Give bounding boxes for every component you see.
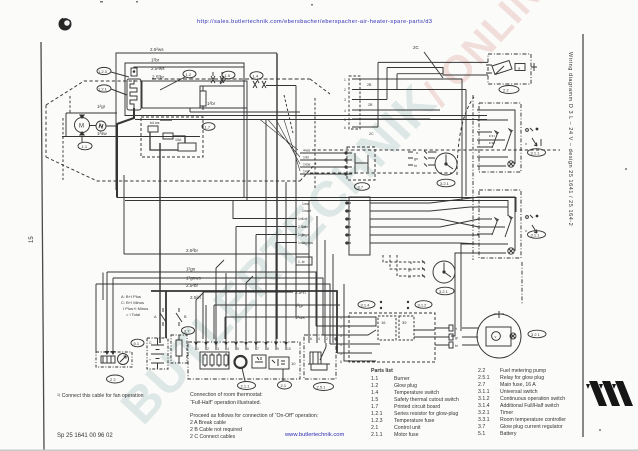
svg-text:1²ws: 1²ws [295,315,305,320]
svg-text:2.7: 2.7 [184,328,190,333]
svg-text:br: br [408,275,412,279]
svg-text:2.5²br: 2.5²br [152,75,164,80]
svg-text:Main fuse, 16 A: Main fuse, 16 A [500,382,536,388]
svg-text:1²gnsw: 1²gnsw [302,241,313,245]
label column mid right [298,217,306,245]
wire pump feed 2 [387,68,488,100]
svg-text:4²ws: 4²ws [303,149,310,153]
wire run 2.5 br lower [96,273,330,353]
switch 3.1.4 box [340,313,435,364]
svg-text:3.7: 3.7 [358,184,364,189]
wire 1 br loop [125,63,244,198]
wire pcb right feed [246,108,248,201]
svg-text:2.1.1: 2.1.1 [371,432,383,438]
svg-text:Timer: Timer [500,410,513,416]
svg-text:8: 8 [267,347,269,351]
svg-text:Sp 25 1641 00 96 02: Sp 25 1641 00 96 02 [57,433,113,439]
svg-text:1.4: 1.4 [253,73,259,78]
note text A C [121,294,148,317]
svg-text:3.1.2: 3.1.2 [418,302,428,307]
svg-text:Proceed as follows for connect: Proceed as follows for connection of “On… [190,413,318,419]
wire run 2.5 rt thick battery [151,291,337,353]
svg-text:2B: 2B [368,103,373,107]
harness bus upper [125,116,487,120]
glow indicator [96,121,106,131]
oval 3.7 [355,183,370,191]
oval 2.1.1 [238,368,256,390]
svg-text:1.2.3: 1.2.3 [98,69,108,74]
glow plug regulator 3.7 box [345,147,375,180]
svg-text:Series resistor for glow-plug: Series resistor for glow-plug [394,411,458,417]
svg-text:1²sw: 1²sw [302,202,310,206]
svg-text:3.3.1: 3.3.1 [478,417,490,423]
oval 1.5 [220,71,235,84]
svg-text:2B: 2B [367,83,372,87]
svg-text:www.butlertechnik.com: www.butlertechnik.com [284,432,344,438]
wire 2.5 br dashed run [152,78,310,80]
svg-text:1²gr: 1²gr [97,104,106,109]
small box 1 br [296,257,312,265]
universal switch 3.1.1 box [477,103,521,172]
oval 3.2.1 lower [436,287,454,295]
heater dashed arc [457,97,474,175]
svg-text:gn: gn [408,268,412,272]
svg-text:I Plus+I Minus: I Plus+I Minus [123,306,148,311]
svg-text:4: 4 [344,109,346,113]
svg-text:2: 2 [326,337,328,341]
svg-text:a: a [518,66,521,71]
room stat clock 2 [433,261,455,283]
svg-text:v: v [495,335,497,339]
svg-text:1.2.1: 1.2.1 [98,86,108,91]
connector 6pin box [345,197,370,255]
extra bus line [190,108,300,112]
scan bottom edge [0,450,638,451]
wire run 2.5 br to 314 [124,175,309,317]
wire 2.5 ws top loop [116,53,277,190]
svg-text:C: B+I Minus: C: B+I Minus [121,300,144,305]
wire main vertical center [276,54,278,340]
relay 2.5.1 box [304,331,336,379]
svg-text:15A: 15A [175,138,182,142]
main fuse 2.7 [171,335,187,363]
publisher logo [586,381,633,406]
svg-text:2 C Connect cables: 2 C Connect cables [190,434,236,440]
svg-text:2.5²ws: 2.5²ws [150,47,164,52]
temperature fuse 1.2.3 [131,68,137,76]
svg-text:Printed circuit board: Printed circuit board [394,404,440,410]
thermostat contact A [160,308,166,326]
svg-text:C: C [149,341,152,345]
oval 1.2.3 [97,67,129,77]
svg-text:2 2: 2 2 [110,377,116,382]
right enclosure dashed outer [521,262,523,305]
battery 5.1 [147,338,168,369]
wire pcb down thick [159,143,161,343]
right long verticals [462,79,466,200]
svg-text:9: 9 [277,347,279,351]
oval 2.5.1 [314,383,334,391]
svg-text:3.1.1: 3.1.1 [531,232,541,237]
timer clock 3.2.1 [435,153,457,175]
svg-text:6: 6 [344,126,346,130]
wire pump feed 3 [397,74,443,90]
oval 5.1 [131,339,144,347]
svg-text:Connection of room thermostat:: Connection of room thermostat: [190,392,263,398]
svg-text:1.1: 1.1 [371,376,378,382]
wire 2C leader [424,52,443,78]
svg-text:Temperature fuse: Temperature fuse [394,418,434,424]
control unit pin arrows [194,342,288,346]
svg-text:“Full-Half” operation illustra: “Full-Half” operation illustrated. [190,400,261,406]
svg-text:1.2: 1.2 [371,383,378,389]
oval 3.1.4 [358,301,375,309]
svg-text:Universal switch: Universal switch [500,389,538,395]
oval 1.1 [78,136,92,150]
svg-text:2.5²br: 2.5²br [186,248,198,253]
oval 3.1.2 [528,231,546,239]
continuous switch 3.1.2 box [477,190,521,258]
svg-text:10: 10 [291,361,296,366]
svg-text:b4 ws: b4 ws [150,121,160,125]
svg-text:1.4: 1.4 [371,390,378,396]
svg-text:3 2 1: 3 2 1 [531,332,541,337]
svg-text:2.2: 2.2 [478,368,485,374]
svg-text:+: + [149,358,151,362]
oval 2.7 [182,327,195,335]
oval 2.1 [278,369,292,389]
wires into relay from top [309,201,333,332]
thermostat contact B [176,308,182,326]
wires into control unit pins [196,120,297,340]
svg-text:Wiring diagramm D 3 L – 24 V –: Wiring diagramm D 3 L – 24 V – design 25… [567,52,573,226]
svg-text:6: 6 [247,347,249,351]
svg-text:2.5²rt: 2.5²rt [295,290,306,295]
svg-text:16: 16 [381,320,386,325]
svg-text:2C: 2C [413,45,420,50]
svg-text:2.1: 2.1 [281,383,287,388]
wire B bottom to relay [451,244,481,336]
control unit sub box a [252,355,266,368]
svg-text:Control unit: Control unit [394,425,421,431]
parts list column 1 [371,368,459,438]
wires into clock 2 dashed drops [383,255,426,279]
wires into 3.7 [260,120,345,175]
room temperature controller 3.3.1 [477,311,521,358]
wire 1 ws mid [225,317,336,339]
svg-text:3: 3 [217,347,219,351]
svg-text:1.2: 1.2 [186,72,192,77]
wire 1 gr mid [214,305,340,339]
wire pump feed 1 [378,62,488,127]
wire run 1 gnws [113,278,323,352]
svg-text:6: 6 [340,360,342,364]
svg-text:4: 4 [227,347,229,351]
svg-text:1) Connect this cable for fan: 1) Connect this cable for fan operation [57,393,144,399]
dots between ovals [380,301,409,309]
heater inner dashed verticals [63,96,70,180]
svg-text:39: 39 [402,320,407,325]
svg-text:2 A Break cable: 2 A Break cable [190,420,226,426]
svg-text:1²gn: 1²gn [302,233,309,237]
wire 1.4 contact run [266,86,296,318]
wire glow indicator [90,125,118,128]
temperature switch 1.4 contacts [253,81,266,88]
svg-text:Motor fuse: Motor fuse [394,432,419,438]
svg-text:Glow plug: Glow plug [394,383,417,389]
svg-text:Additional Full/Half switch: Additional Full/Half switch [500,403,559,409]
svg-text:2.1.1: 2.1.1 [241,383,251,388]
svg-text:M: M [79,124,84,130]
control unit pins 1-10 [196,339,291,351]
connector X2 [344,76,374,136]
harness bus mid [117,198,516,217]
svg-text:5.1: 5.1 [134,341,140,346]
oval 1.7 [202,123,215,131]
oval 3.1.1 [528,149,546,157]
page border right [582,34,584,437]
svg-text:3.2.1: 3.2.1 [440,181,450,186]
svg-text:15: 15 [29,236,35,243]
svg-text:7: 7 [257,347,259,351]
wire 2.5 ws glowplug feed [134,67,244,86]
svg-text:1.5: 1.5 [225,73,231,78]
3pin connector [449,325,478,348]
dashed link 1.4 to below [284,95,315,190]
svg-text:v: v [525,141,527,146]
svg-text:1²gn: 1²gn [186,267,196,272]
svg-text:1²br: 1²br [302,225,309,229]
oval 1.2 [160,70,196,90]
wires into timer [408,151,437,169]
glow plug 1.2 body [127,79,141,110]
wire glow plug down thick [117,108,134,198]
svg-text:1²sw: 1²sw [97,131,107,136]
svg-text:1²br: 1²br [303,156,310,160]
svg-text:A: A [154,315,157,319]
svg-text:br: br [414,164,418,168]
svg-text:10: 10 [287,347,291,351]
svg-text:3.1.2: 3.1.2 [478,396,490,402]
svg-text:5.1: 5.1 [478,431,485,437]
svg-text:2: 2 [344,88,346,92]
scan specks [100,1,627,431]
svg-text:1²br: 1²br [151,58,160,63]
svg-text:3.1.4: 3.1.4 [361,302,371,307]
right enclosure dashed [472,95,474,260]
wire 2.5 rt mid [203,292,293,339]
svg-text:v: v [525,228,527,233]
svg-text:Parts list: Parts list [371,368,393,374]
svg-text:1.7: 1.7 [205,124,211,129]
svg-text:1.5: 1.5 [371,397,378,403]
watermark ONLINE [415,0,570,114]
oval 1.2.1 [97,85,127,95]
control unit 2.1 box [188,342,300,379]
svg-text:5: 5 [344,118,346,122]
svg-text:3.2.1: 3.2.1 [439,289,449,294]
motor M [75,115,90,136]
svg-text:gr: gr [455,336,459,340]
wires X2 pins [360,79,466,127]
svg-text:2.5.1: 2.5.1 [478,375,490,381]
control unit ring [235,356,247,368]
safety switch 1.5 contacts [211,72,224,83]
stubs to 3.1.4 pins [309,284,349,361]
series resistor 1.2.1 [200,86,206,110]
svg-text:3.1.4: 3.1.4 [478,403,490,409]
svg-text:1²gnws: 1²gnws [186,276,202,281]
control unit sub box b [269,357,296,369]
oval 3.1.2 lower [415,301,432,309]
oval 2.2 [107,375,124,383]
oval 3.3.1 [528,330,546,338]
svg-text:1²swrt: 1²swrt [302,209,311,213]
svg-text:3.1.1: 3.1.1 [478,389,490,395]
annotation 3.1.1 [525,128,541,146]
svg-text:1²br: 1²br [207,101,216,106]
svg-text:1²gr: 1²gr [303,170,310,174]
svg-text:2.1: 2.1 [371,425,378,431]
svg-text:Room temperature controller: Room temperature controller [500,417,566,423]
note block room thermostat [190,392,318,440]
svg-text:Safety thermal cutout switch: Safety thermal cutout switch [394,397,459,403]
svg-text:4: 4 [318,337,320,341]
svg-text:1. br: 1. br [298,260,306,264]
wire motor bottom long [62,136,200,138]
svg-text:2.5.1: 2.5.1 [317,384,327,389]
svg-text:http://sales.butlertechnik.com: http://sales.butlertechnik.com/ebersbach… [197,19,432,25]
svg-text:= I Total: = I Total [126,312,140,317]
oval 3.2.1 [437,179,455,187]
svg-text:2: 2 [207,347,209,351]
svg-text:Burner: Burner [394,376,410,382]
svg-text:1.7: 1.7 [371,404,378,410]
svg-text:1: 1 [197,347,199,351]
svg-text:2C: 2C [369,132,374,136]
oval 1.4 [250,72,263,83]
fuel pump 2.2 top right box [486,54,537,84]
svg-text:5: 5 [237,347,239,351]
svg-text:1²sw: 1²sw [303,163,311,167]
svg-text:A: B+I Plus: A: B+I Plus [121,294,141,299]
pcb box 1.7 outline [142,81,247,108]
svg-text:1.1: 1.1 [82,144,88,149]
wire motor top [66,113,117,136]
svg-text:3.2.1: 3.2.1 [478,410,490,416]
wires from 3.1.4 to controller [414,328,449,345]
svg-text:1²gr: 1²gr [295,303,304,308]
svg-text:gn: gn [414,157,418,161]
svg-text:3.7: 3.7 [478,424,485,430]
svg-text:2.5²br: 2.5²br [186,283,198,288]
pump pin arrows [105,351,110,355]
parts list column 2 [478,368,566,437]
svg-text:3: 3 [344,98,346,102]
svg-text:Temperature switch: Temperature switch [394,390,439,396]
svg-text:br: br [455,344,459,348]
svg-text:Fuel metering pump: Fuel metering pump [500,368,546,374]
svg-text:1: 1 [344,78,346,82]
oval 2.2 top right [499,86,519,94]
pcb cluster 1.7 [141,117,203,157]
wire run 1 gn [107,272,316,352]
box 1 br [200,86,244,108]
svg-text:2.7: 2.7 [478,382,485,388]
fuel pump 2.2 left [96,352,132,367]
svg-text:1.2.1: 1.2.1 [371,411,383,417]
punch hole [59,17,72,30]
svg-text:8: 8 [334,337,336,341]
labels left of 6pin [302,202,313,245]
wires 6pin to switch [370,197,479,244]
svg-text:Battery: Battery [500,431,517,437]
svg-text:Relay for glow plug: Relay for glow plug [500,375,544,381]
svg-text:Glow plug current regulator: Glow plug current regulator [500,424,563,430]
svg-text:a: a [416,151,418,155]
watermark BUTLERTECHNIK [110,74,447,435]
svg-text:1²rt: 1²rt [302,217,307,221]
page border left [41,42,44,450]
svg-text:6: 6 [310,337,312,341]
svg-text:2.5²ws: 2.5²ws [151,66,165,71]
svg-text:2 B Cable not required: 2 B Cable not required [190,427,242,433]
svg-text:1.2.3: 1.2.3 [371,418,383,424]
heater outline dashed [46,79,330,181]
svg-text:/ ONLINE: / ONLINE [415,0,570,114]
svg-text:2 2: 2 2 [503,87,509,92]
svg-text:a: a [410,261,412,265]
svg-text:Continuous operation switch: Continuous operation switch [500,396,565,402]
svg-text:3.1.1: 3.1.1 [531,150,541,155]
heater outline dashed right run [310,150,560,173]
motor fuse block 2.1.1 [200,352,229,369]
annotation 3.1.2 [525,215,538,233]
